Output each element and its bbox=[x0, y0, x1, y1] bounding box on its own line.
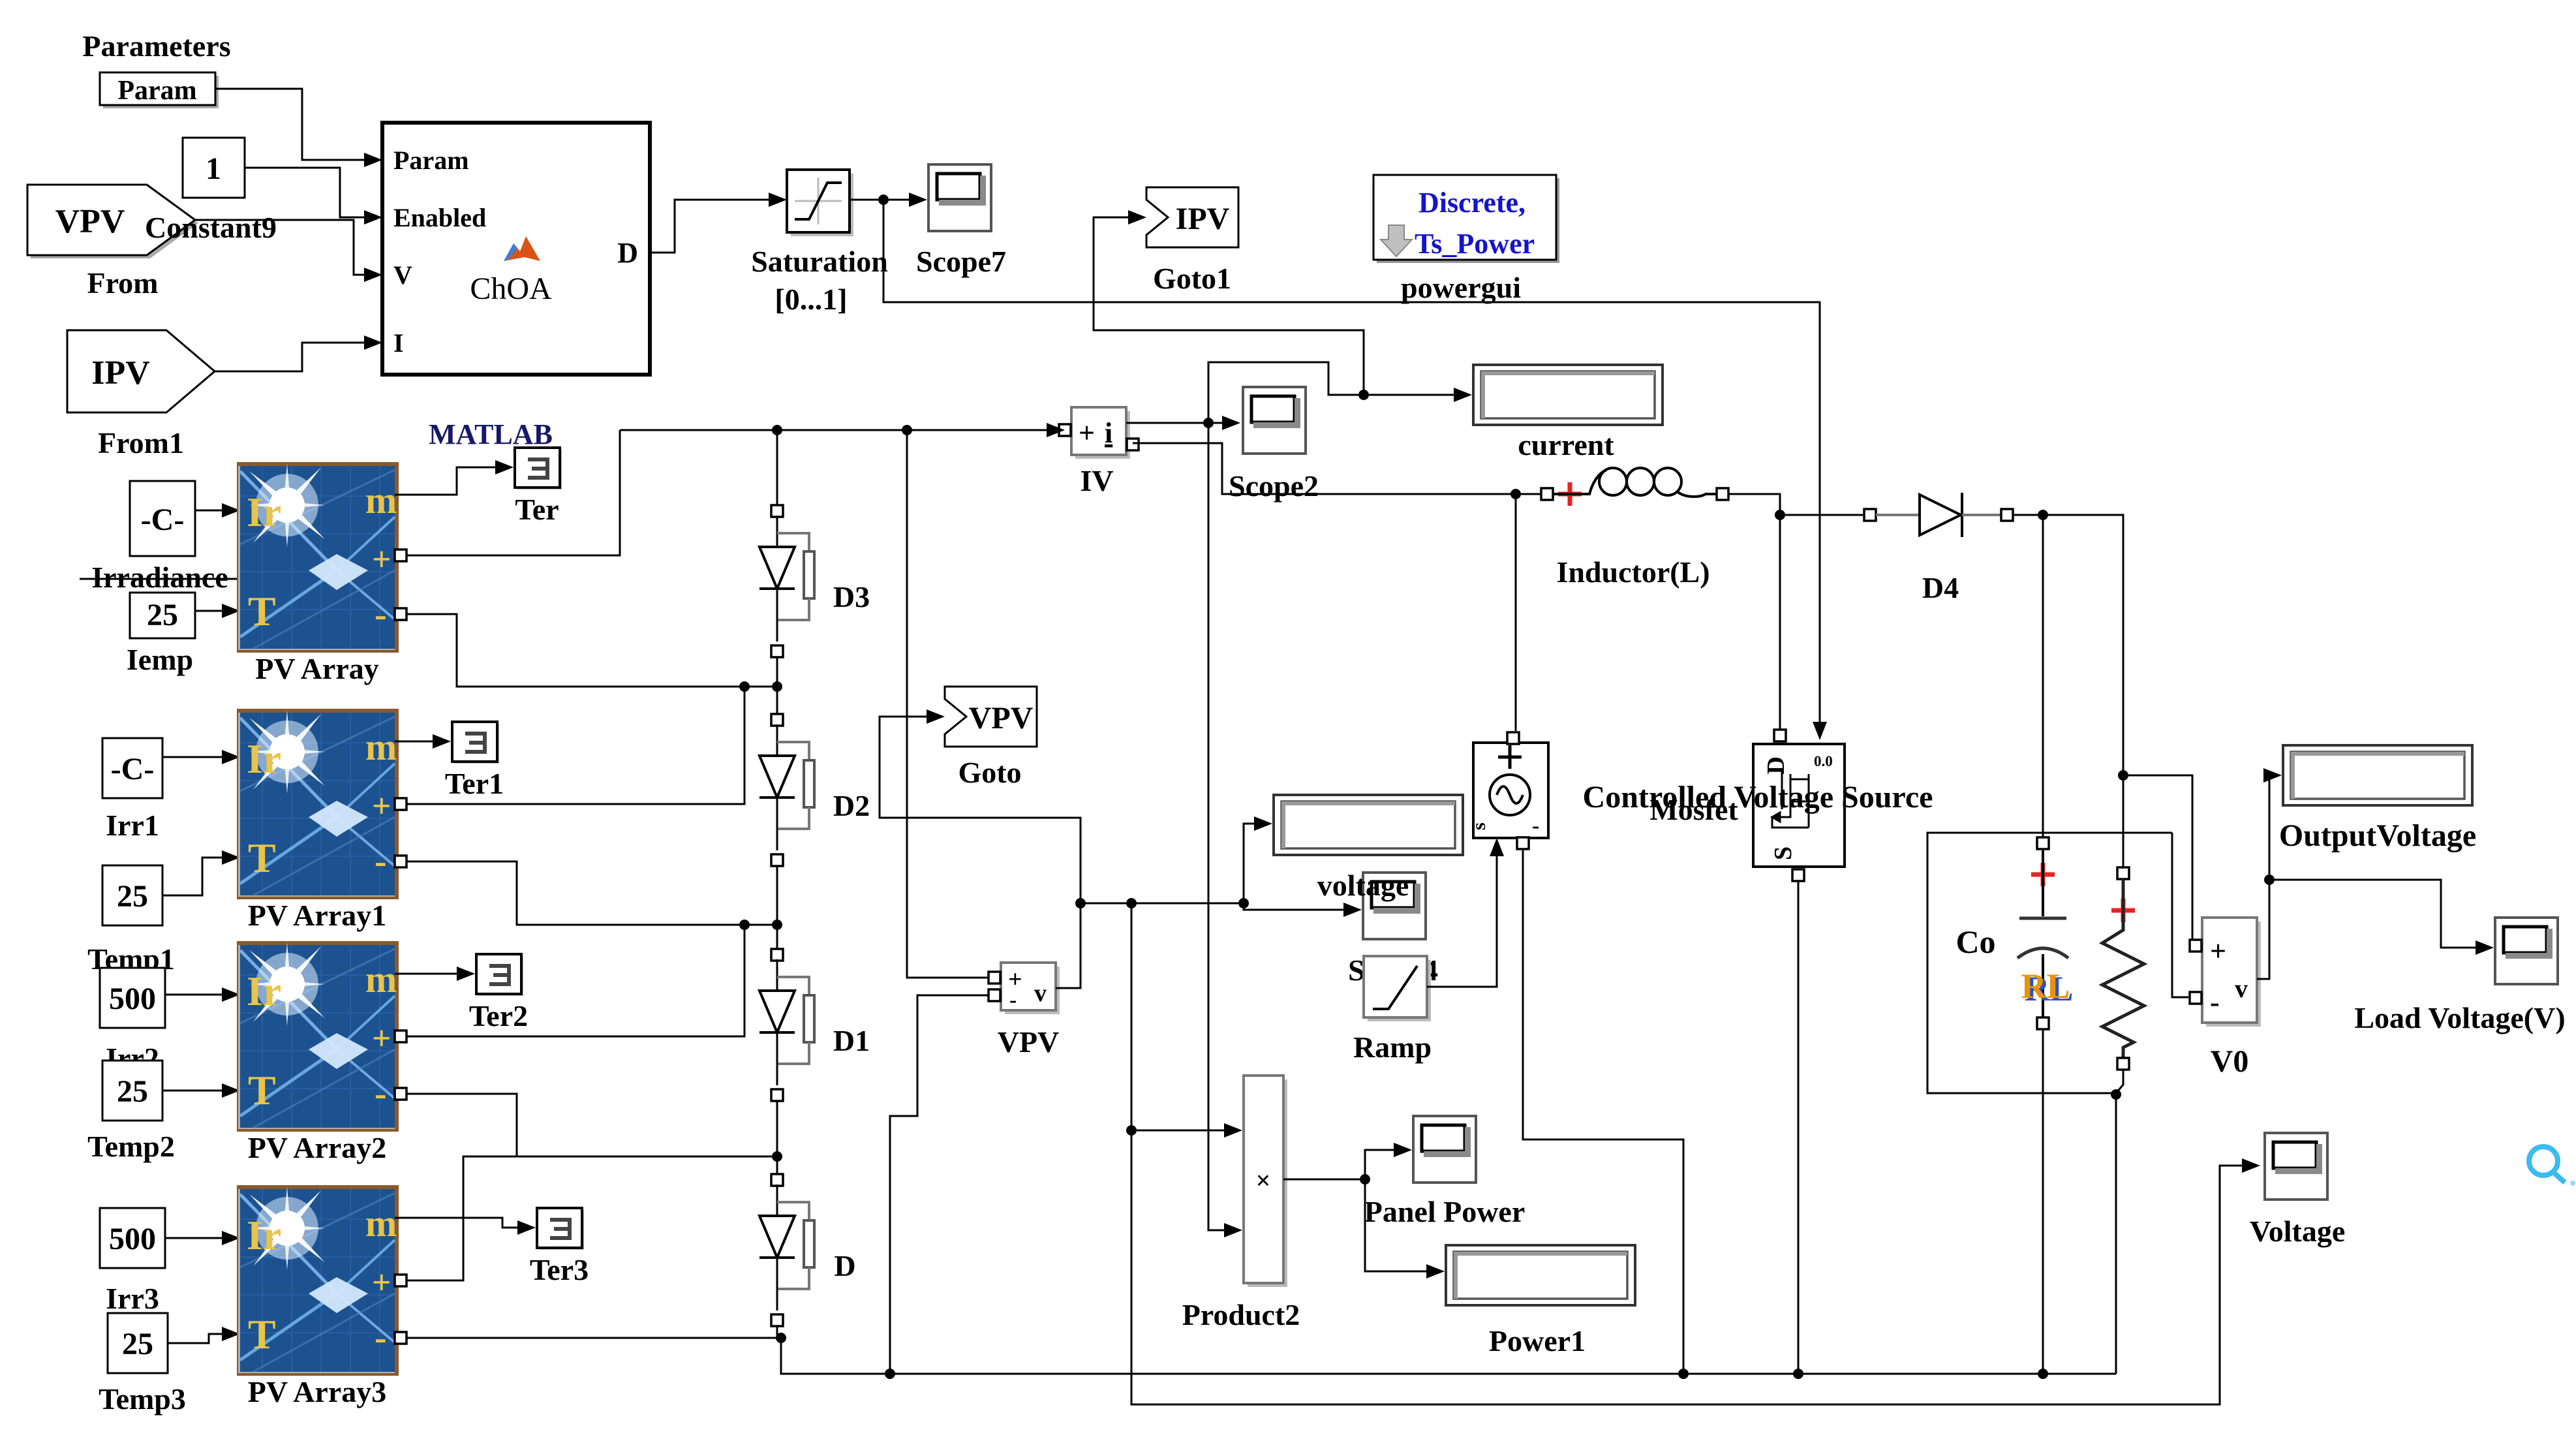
svg-text:D3: D3 bbox=[833, 580, 870, 613]
port D1 top bbox=[771, 949, 783, 961]
svg-text:25: 25 bbox=[122, 1327, 153, 1361]
saturation block bbox=[787, 170, 853, 236]
constant 25 Iemp bbox=[130, 593, 195, 638]
wire resistor bottom to bus corner bbox=[2116, 1070, 2123, 1374]
wire D4 output node bbox=[2013, 515, 2123, 868]
svg-text:s: s bbox=[1468, 822, 1490, 830]
svg-text:i: i bbox=[1105, 417, 1112, 449]
svg-text:Discrete,: Discrete, bbox=[1418, 187, 1526, 219]
port D bottom bbox=[771, 1314, 783, 1326]
wire CVS minus down and to ground bus bbox=[1523, 848, 1683, 1374]
voltage measurement block VPV bbox=[1001, 963, 1060, 1014]
svg-text:Power1: Power1 bbox=[1489, 1324, 1586, 1357]
wire VPV minus to ground bus bbox=[890, 995, 989, 1374]
Goto tag Goto1 IPV bbox=[1146, 187, 1238, 247]
svg-text:PV Array2: PV Array2 bbox=[248, 1131, 387, 1164]
svg-text:v: v bbox=[1034, 980, 1047, 1007]
constant -C- Irradiance bbox=[130, 481, 195, 556]
port PV Array minus bbox=[395, 608, 406, 620]
svg-text:Panel Power: Panel Power bbox=[1364, 1195, 1526, 1228]
svg-text:25: 25 bbox=[117, 1074, 148, 1109]
svg-text:500: 500 bbox=[109, 1222, 156, 1256]
wire Product2 output bbox=[1283, 1150, 1407, 1179]
port PV Array2 minus bbox=[395, 1088, 406, 1100]
port V0 plus bbox=[2190, 940, 2201, 952]
wire junction down to CVS plus bbox=[1515, 494, 1517, 731]
svg-text:-C-: -C- bbox=[141, 503, 185, 537]
resistor RL bbox=[2102, 867, 2144, 1070]
svg-text:VPV: VPV bbox=[55, 203, 125, 240]
wire 25 to PV Array1 T bbox=[162, 858, 234, 895]
scope Panel Power bbox=[1413, 1116, 1477, 1184]
wire D bottom to bus bbox=[776, 1326, 778, 1338]
wire i signal to current display and junction bbox=[1208, 362, 1467, 423]
svg-text:Inductor(L): Inductor(L) bbox=[1556, 555, 1710, 589]
wire PV Array2 minus to node D bbox=[406, 1094, 772, 1156]
wire PV Array1 m to Ter1 bbox=[395, 741, 446, 743]
svg-text:Ter2: Ter2 bbox=[469, 999, 528, 1032]
svg-text:Enabled: Enabled bbox=[393, 203, 486, 232]
wire PV Array2 plus to node C bbox=[406, 925, 744, 1036]
magnifier icon bbox=[2529, 1147, 2575, 1186]
port inductor right bbox=[1717, 488, 1728, 500]
block PV Array2 bbox=[215, 912, 399, 1132]
port D1 bottom bbox=[771, 1089, 783, 1101]
wire current signal to Goto1 bbox=[1094, 217, 1364, 395]
port D3 bottom bbox=[771, 645, 783, 657]
svg-text:0.0: 0.0 bbox=[1814, 753, 1833, 769]
block PV Array bbox=[215, 433, 399, 653]
wire capacitor to bus bbox=[2042, 1029, 2044, 1374]
svg-text:Ter3: Ter3 bbox=[530, 1253, 589, 1286]
constant 25 Temp2 bbox=[102, 1061, 162, 1121]
wire to voltage display bbox=[1244, 824, 1267, 903]
svg-text:Scope2: Scope2 bbox=[1229, 469, 1319, 503]
constant 500 Irr2 bbox=[100, 968, 165, 1028]
port D top bbox=[771, 1174, 783, 1186]
svg-text:D1: D1 bbox=[833, 1024, 870, 1057]
wire ChOA D to Saturation bbox=[650, 200, 780, 253]
port inductor left bbox=[1541, 488, 1553, 500]
svg-text:-: - bbox=[2210, 986, 2220, 1018]
diode D1 bbox=[759, 959, 814, 1085]
wire node down to capacitor bbox=[2042, 515, 2044, 842]
port D3 top bbox=[771, 505, 783, 517]
svg-text:Load Voltage(V): Load Voltage(V) bbox=[2354, 1001, 2565, 1034]
constant Constant9 value 1 bbox=[183, 138, 245, 198]
wire current to Product2 input 2 bbox=[1208, 423, 1237, 1230]
svg-text:Constant9: Constant9 bbox=[145, 211, 277, 244]
From tag Param bbox=[100, 72, 219, 108]
MATLAB Function block ChOA bbox=[382, 123, 650, 375]
svg-text:Ter1: Ter1 bbox=[445, 767, 504, 800]
svg-text:D: D bbox=[1762, 756, 1790, 774]
scope Load Voltage(V) bbox=[2495, 918, 2559, 985]
Goto tag VPV bbox=[945, 687, 1037, 747]
wire node C segment bbox=[776, 866, 778, 950]
svg-text:V0: V0 bbox=[2211, 1044, 2249, 1079]
capacitor Co bbox=[2017, 837, 2068, 1029]
wire IV through to inductor bbox=[1133, 443, 1541, 494]
port Mosfet top-left bbox=[1774, 730, 1786, 741]
svg-text:I: I bbox=[393, 328, 404, 358]
port CVS bottom-right bbox=[1517, 837, 1529, 849]
svg-text:VPV: VPV bbox=[969, 701, 1034, 736]
diode D2 bbox=[759, 724, 814, 850]
display current bbox=[1473, 365, 1663, 425]
svg-text:Temp2: Temp2 bbox=[87, 1130, 175, 1163]
powergui block bbox=[1373, 175, 1559, 263]
svg-text:[0...1]: [0...1] bbox=[774, 283, 847, 316]
svg-text:current: current bbox=[1518, 428, 1614, 461]
wire diode string column bbox=[776, 430, 778, 511]
constant 25 Temp1 bbox=[102, 865, 162, 925]
svg-text:MATLAB: MATLAB bbox=[429, 418, 553, 450]
svg-text:D2: D2 bbox=[833, 789, 870, 822]
block PV Array1 bbox=[215, 680, 399, 899]
port VPV plus bbox=[989, 972, 1000, 984]
terminator Ter2 bbox=[476, 954, 523, 996]
constant -C- Irr1 bbox=[102, 738, 162, 798]
svg-text:PV Array: PV Array bbox=[255, 652, 379, 685]
port CVS top bbox=[1507, 732, 1519, 744]
svg-text:25: 25 bbox=[147, 598, 178, 632]
wire VPV output to voltage net bbox=[1081, 903, 1244, 905]
wire PV Array3 minus to ground bus bbox=[406, 1338, 2116, 1374]
svg-text:D: D bbox=[617, 237, 638, 269]
svg-text:500: 500 bbox=[109, 982, 156, 1016]
terminator Ter1 bbox=[452, 722, 499, 764]
wire to Scope4 bbox=[1244, 903, 1357, 910]
svg-text:From1: From1 bbox=[98, 426, 184, 459]
svg-text:V: V bbox=[393, 260, 412, 290]
svg-text:Scope7: Scope7 bbox=[916, 245, 1006, 278]
port PV Array3 minus bbox=[395, 1332, 406, 1344]
wire Constant9 to ChOA Enabled bbox=[245, 168, 376, 217]
svg-text:voltage: voltage bbox=[1317, 869, 1409, 902]
svg-text:Ter: Ter bbox=[515, 493, 559, 526]
port D2 bottom bbox=[771, 854, 783, 866]
svg-text:Voltage: Voltage bbox=[2250, 1215, 2346, 1248]
port IV through output bbox=[1127, 439, 1139, 450]
wire Mosfet source to ground bus bbox=[1798, 880, 1800, 1374]
wire duty cycle to Mosfet gate bbox=[883, 200, 1820, 734]
wire PV Array3 plus to node D bbox=[406, 1156, 772, 1280]
wire VPV to ChOA V bbox=[195, 220, 376, 275]
wire Param to ChOA bbox=[215, 89, 376, 160]
svg-text:Param: Param bbox=[393, 146, 469, 175]
svg-text:v: v bbox=[2235, 974, 2248, 1003]
port PV Array1 plus bbox=[395, 798, 406, 810]
wire node B segment bbox=[776, 657, 778, 715]
From tag IPV (From1) bbox=[67, 330, 215, 412]
wire -C- to PV Array Ir bbox=[195, 510, 234, 512]
svg-text:IV: IV bbox=[1080, 464, 1113, 497]
wire PV Array1 plus to node B bbox=[406, 687, 744, 804]
svg-text:Parameters: Parameters bbox=[82, 29, 230, 63]
wire junction to VPV goto bbox=[907, 430, 988, 978]
port V0 minus bbox=[2190, 992, 2201, 1004]
transistor Mosfet bbox=[1753, 744, 1845, 867]
svg-text:IPV: IPV bbox=[1176, 202, 1230, 236]
svg-text:D4: D4 bbox=[1922, 571, 1959, 604]
svg-text:1: 1 bbox=[206, 151, 221, 186]
terminator Ter bbox=[515, 448, 562, 489]
wire 25 to PV Array2 T bbox=[162, 1090, 234, 1092]
block PV Array3 bbox=[215, 1156, 399, 1376]
svg-text:Product2: Product2 bbox=[1182, 1298, 1300, 1331]
svg-text:OutputVoltage: OutputVoltage bbox=[2279, 818, 2476, 853]
red plus inductor bbox=[1558, 482, 1582, 506]
wire PV Array m to Ter bbox=[395, 467, 508, 495]
wire VPV to Product2 input 1 and down to Voltage scope bbox=[1131, 903, 2254, 1404]
port PV Array2 plus bbox=[395, 1030, 406, 1042]
svg-text:D: D bbox=[834, 1249, 855, 1282]
svg-text:Ts_Power: Ts_Power bbox=[1415, 228, 1535, 260]
port PV Array1 minus bbox=[395, 856, 406, 867]
wire IV i output to Scope2 bbox=[1126, 422, 1236, 424]
wire V0 output net bbox=[2257, 775, 2277, 979]
wire output node box bbox=[1927, 833, 2172, 1093]
svg-text:RL: RL bbox=[2021, 967, 2070, 1006]
wire 25 to PV Array T bbox=[195, 610, 234, 612]
svg-text:Irr1: Irr1 bbox=[106, 809, 159, 842]
svg-text:Saturation: Saturation bbox=[751, 245, 888, 278]
controlled voltage source CVS bbox=[1468, 743, 1548, 838]
port PV Array plus bbox=[395, 550, 406, 561]
svg-text:Iemp: Iemp bbox=[127, 643, 193, 676]
svg-text:PV Array1: PV Array1 bbox=[248, 899, 387, 932]
svg-text:IPV: IPV bbox=[91, 354, 150, 392]
svg-text:Goto: Goto bbox=[958, 756, 1021, 789]
wire PV Array3 m to Ter3 bbox=[395, 1218, 530, 1228]
svg-text:×: × bbox=[1256, 1166, 1271, 1195]
display OutputVoltage bbox=[2283, 745, 2472, 805]
svg-text:Irradiance: Irradiance bbox=[91, 561, 228, 594]
port Mosfet bottom bbox=[1792, 869, 1804, 881]
svg-text:-: - bbox=[1009, 988, 1017, 1012]
wire -C- to PV Array1 Ir bbox=[162, 756, 234, 758]
wire inductor to D4 node bbox=[1728, 494, 1865, 515]
diode D4 bbox=[1864, 493, 2013, 537]
svg-text:+: + bbox=[1079, 417, 1095, 449]
scope Voltage bbox=[2265, 1133, 2329, 1201]
wire PV Array2 m to Ter2 bbox=[395, 973, 470, 975]
scope Scope4 bbox=[1363, 873, 1427, 940]
wire artifact over Irradiance bbox=[80, 578, 326, 580]
wire 500 to PV Array3 Ir bbox=[165, 1237, 234, 1239]
svg-text:Irr3: Irr3 bbox=[106, 1282, 159, 1315]
constant 25 Temp3 bbox=[108, 1313, 168, 1373]
From tag VPV bbox=[27, 185, 198, 258]
port IV input bbox=[1059, 424, 1071, 436]
svg-text:25: 25 bbox=[117, 879, 148, 914]
wire 25 to PV Array3 T bbox=[168, 1334, 234, 1343]
svg-text:Param: Param bbox=[117, 76, 196, 106]
wire IPV to ChOA I bbox=[215, 343, 376, 371]
svg-text:powergui: powergui bbox=[1401, 271, 1521, 304]
svg-text:PV Array3: PV Array3 bbox=[248, 1375, 387, 1408]
svg-text:-C-: -C- bbox=[111, 752, 155, 786]
svg-text:Temp3: Temp3 bbox=[99, 1382, 186, 1416]
diode D3 bbox=[759, 516, 814, 642]
svg-text:S: S bbox=[1770, 846, 1797, 860]
svg-text:VPV: VPV bbox=[998, 1025, 1060, 1059]
current measurement block IV bbox=[1071, 407, 1130, 459]
scope Scope2 bbox=[1243, 387, 1307, 455]
source Ramp bbox=[1364, 956, 1431, 1021]
port VPV minus bbox=[989, 989, 1000, 1001]
svg-text:Ramp: Ramp bbox=[1353, 1030, 1432, 1064]
wire node to V0 plus bbox=[2123, 775, 2192, 946]
display Power1 bbox=[1446, 1245, 1635, 1305]
wire main plus bus into IV bbox=[620, 429, 1058, 431]
constant 500 Irr3 bbox=[100, 1208, 165, 1268]
wire PV Array plus to top bus bbox=[406, 430, 620, 555]
svg-text:Controlled Voltage Source: Controlled Voltage Source bbox=[1583, 780, 1933, 814]
wire VPV output to Goto tag bbox=[880, 717, 1081, 988]
svg-text:Goto1: Goto1 bbox=[1153, 262, 1231, 295]
wire Ramp to CVS s input bbox=[1427, 842, 1497, 987]
svg-text:From: From bbox=[87, 266, 158, 300]
svg-text:ChOA: ChOA bbox=[470, 271, 552, 306]
product Product2 bbox=[1244, 1076, 1287, 1287]
wire PV Array minus to node B bbox=[406, 614, 772, 687]
wire 500 to PV Array2 Ir bbox=[165, 994, 234, 996]
terminator Ter3 bbox=[537, 1208, 584, 1250]
voltage measurement V0 bbox=[2202, 918, 2261, 1027]
port PV Array3 plus bbox=[395, 1275, 406, 1286]
wire PV Array1 minus to node C bbox=[406, 861, 772, 925]
inductor L coil bbox=[1553, 470, 1606, 494]
wire node D segment bbox=[776, 1101, 778, 1175]
diode D bbox=[759, 1185, 814, 1310]
display voltage bbox=[1274, 795, 1463, 855]
wire Saturation to Scope7 bbox=[850, 199, 923, 201]
svg-text:-: - bbox=[1532, 814, 1539, 838]
wire node down to Mosfet drain bbox=[1779, 515, 1781, 729]
svg-text:+: + bbox=[2210, 935, 2226, 967]
port D2 top bbox=[771, 714, 783, 726]
svg-text:Co: Co bbox=[1955, 923, 1995, 960]
scope Scope7 bbox=[928, 164, 992, 232]
